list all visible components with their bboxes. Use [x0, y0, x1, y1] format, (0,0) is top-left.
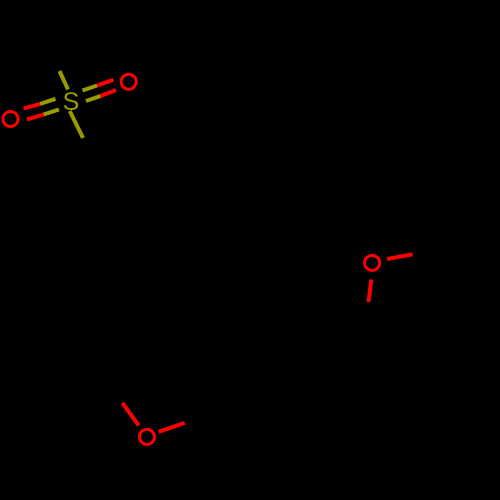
- wire S-CH2 bond (sulfur half): [70, 111, 83, 138]
- atom label O (furan oxygen bottom-left): [139, 429, 154, 444]
- svg-text:S: S: [63, 88, 80, 116]
- wire S=O left double bond lower line oxygen half: [27, 115, 44, 120]
- atom label O (sulfonyl oxygen right): [121, 74, 136, 89]
- wire S=O right double bond upper line oxygen half: [97, 80, 114, 86]
- wire furan O right: bond down (oxygen half): [369, 280, 372, 303]
- wire S=O left double bond upper line oxygen half: [24, 104, 41, 109]
- wire S=O right double bond upper line sulfur half: [83, 86, 98, 91]
- wire S=O right double bond lower line sulfur half: [86, 96, 101, 101]
- wire S=O left double bond upper line sulfur half: [40, 99, 56, 104]
- wire furan O right: bond up-right (oxygen half): [387, 254, 413, 259]
- wire furan O bottom-left: bond up-left (oxygen half): [122, 403, 139, 426]
- atom label O (sulfonyl oxygen left): [3, 112, 18, 127]
- atom label O (furan oxygen right): [365, 255, 380, 270]
- wire S=O right double bond lower line oxygen half: [101, 90, 117, 96]
- wire S=O left double bond lower line sulfur half: [44, 110, 60, 115]
- wire furan O bottom-left: bond right (oxygen half): [159, 423, 185, 432]
- wire S-CH3 bond (sulfur half): [60, 71, 69, 90]
